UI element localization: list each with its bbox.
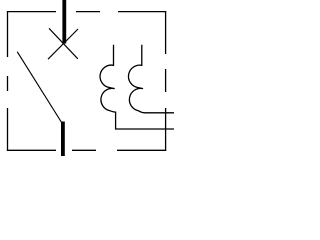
- wire bottom border left segment: [7, 149, 56, 151]
- terminal post T2 (thick bar through bottom border): [61, 122, 65, 157]
- wire left border middle dash: [7, 76, 9, 91]
- wire bottom border right segment: [117, 149, 166, 151]
- inductor L1 (left coil: lead, loop 1, link, loop 2, tail to output wire): [100, 45, 174, 129]
- switch S1 (open blade): [17, 52, 61, 122]
- wire left border lower segment: [7, 108, 9, 151]
- wire bottom border middle segment: [72, 149, 96, 151]
- inductor L2 (right coil: lead, loop 1, link, loop 2, tail to output wire): [128, 45, 174, 113]
- wire right border lower segment: [165, 108, 167, 151]
- terminal post T1 (thick bar through top border): [62, 0, 66, 44]
- wire right border upper segment: [165, 11, 167, 54]
- wire top border middle segment: [76, 11, 100, 13]
- wire left border upper segment: [7, 11, 9, 57]
- wire top border left segment: [7, 11, 56, 13]
- wire right border middle dash: [165, 69, 167, 92]
- lamp X1 crossed-wires stroke (slash): [48, 29, 78, 59]
- wire top border right segment: [118, 11, 166, 13]
- lamp X1 crossed-wires stroke (backslash): [49, 28, 78, 59]
